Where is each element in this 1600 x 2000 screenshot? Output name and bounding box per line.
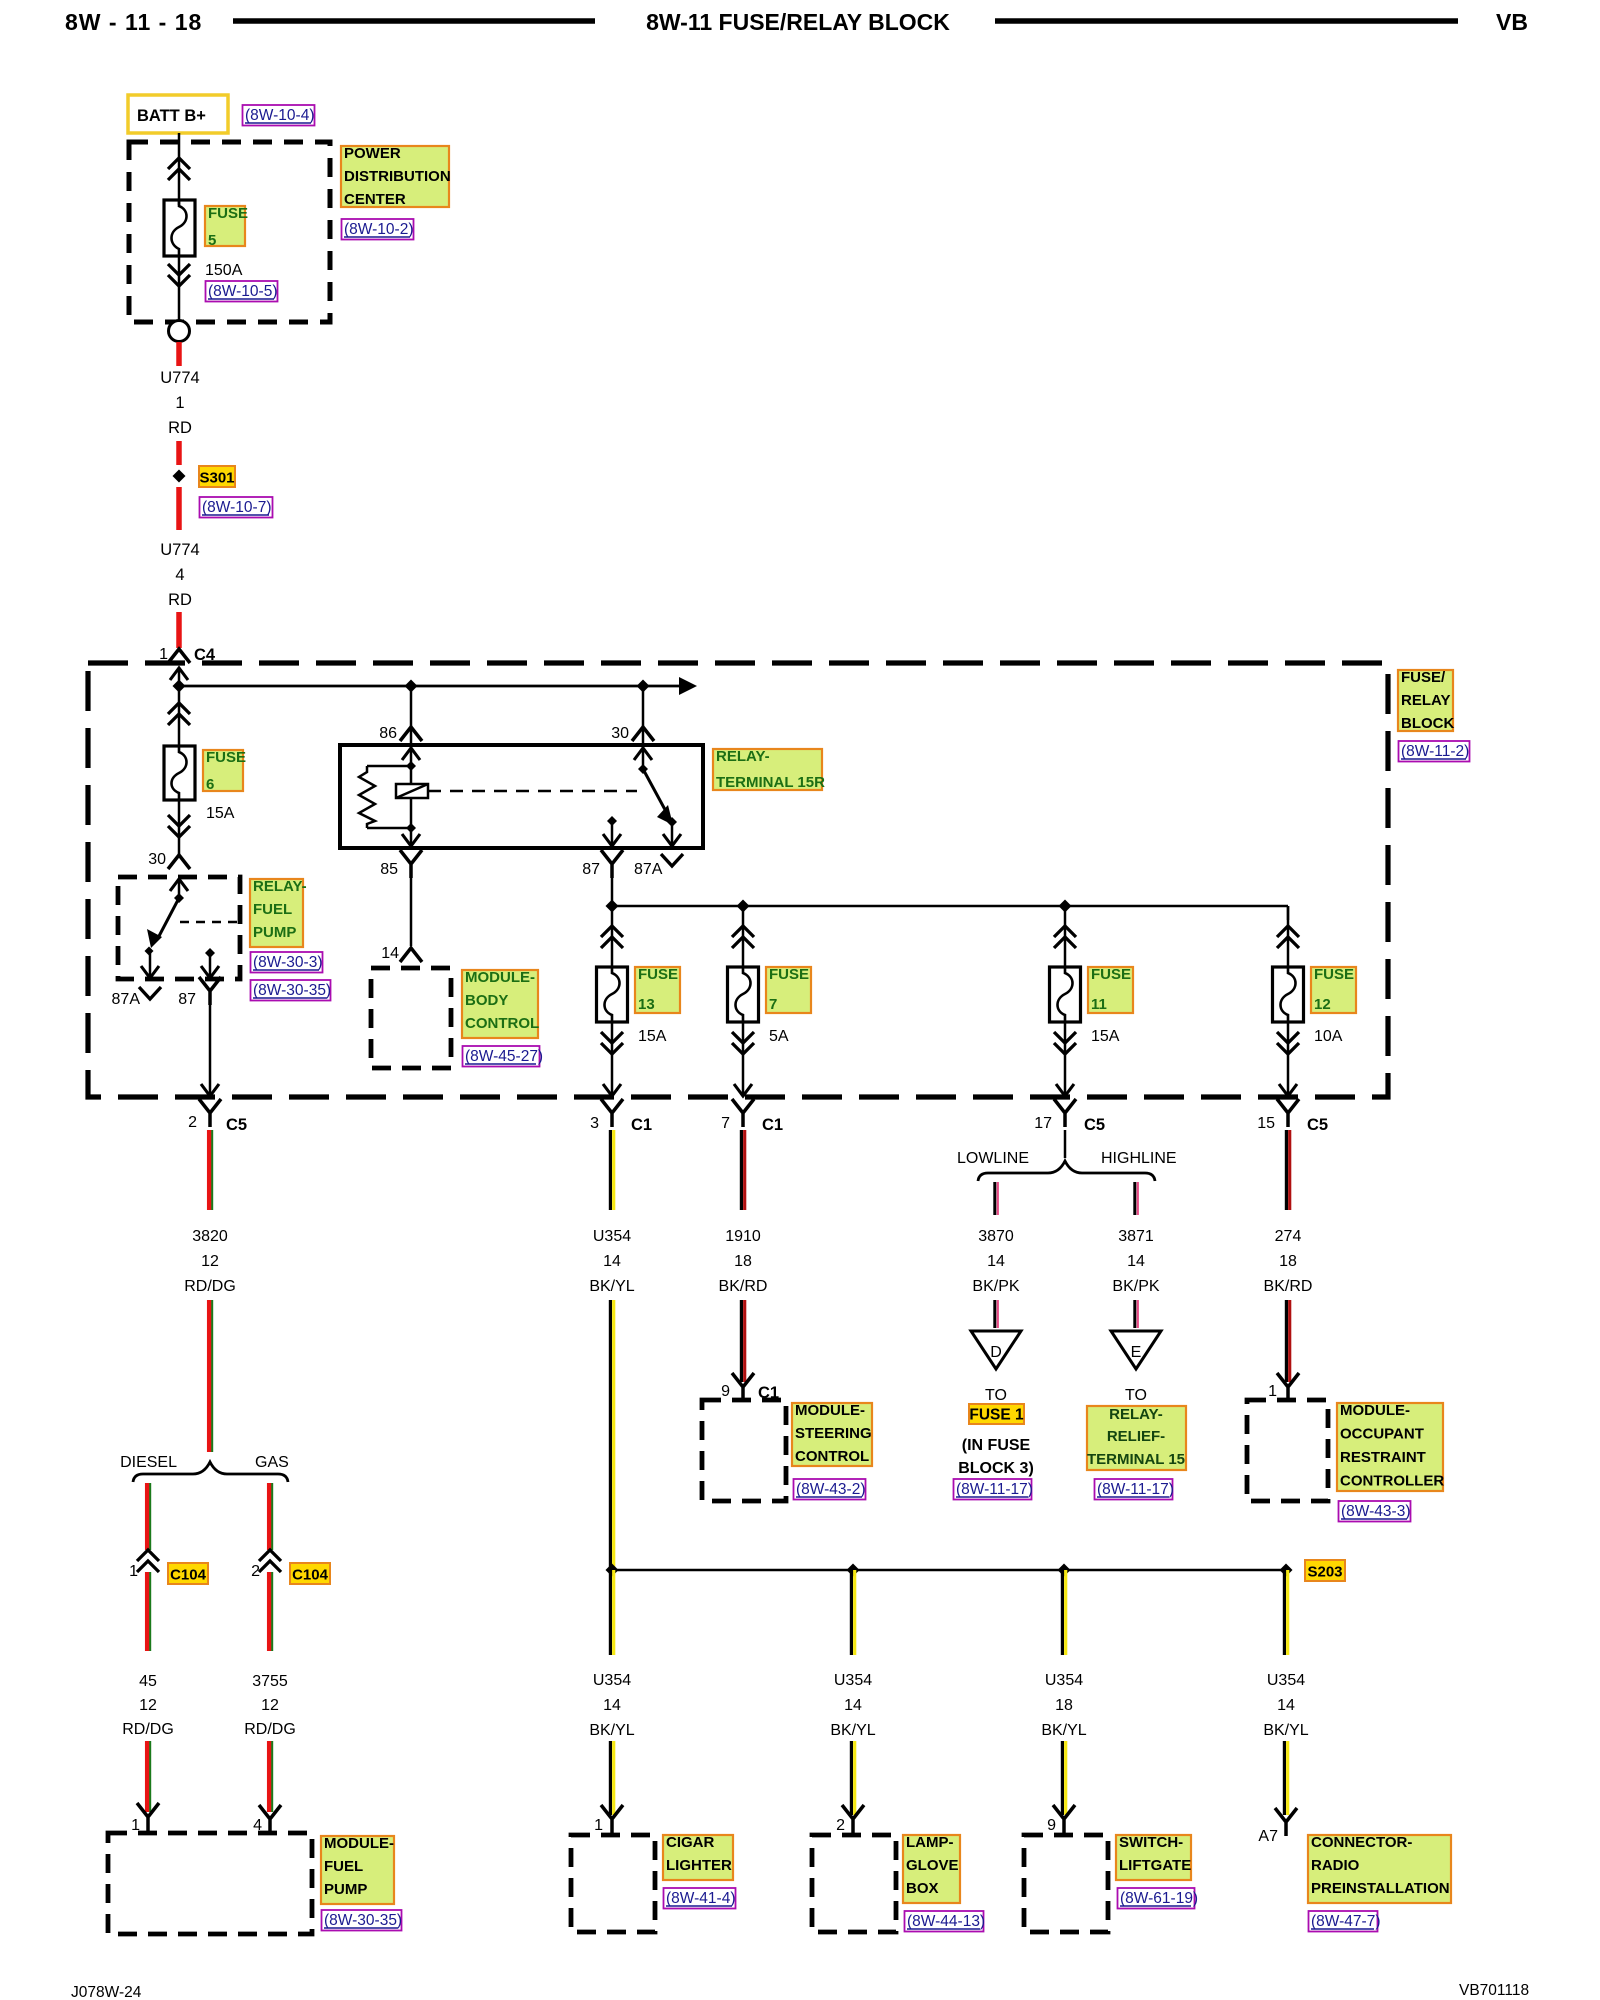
svg-text:U354: U354 xyxy=(593,1672,631,1689)
svg-text:BK/YL: BK/YL xyxy=(589,1722,634,1739)
svg-text:FUSE 1: FUSE 1 xyxy=(969,1407,1024,1424)
svg-text:BK/YL: BK/YL xyxy=(830,1722,875,1739)
svg-text:85: 85 xyxy=(380,861,398,878)
svg-text:GAS: GAS xyxy=(255,1454,289,1471)
svg-text:GLOVE: GLOVE xyxy=(906,1857,959,1874)
svg-text:BK/RD: BK/RD xyxy=(719,1278,768,1295)
svg-text:14: 14 xyxy=(844,1697,862,1714)
svg-text:(8W-30-35): (8W-30-35) xyxy=(324,1912,402,1929)
svg-text:(8W-11-17): (8W-11-17) xyxy=(1097,1481,1174,1498)
svg-text:C104: C104 xyxy=(170,1567,207,1584)
svg-text:86: 86 xyxy=(379,725,397,742)
svg-text:C1: C1 xyxy=(762,1116,783,1134)
svg-text:MODULE-: MODULE- xyxy=(1340,1402,1410,1419)
svg-text:1: 1 xyxy=(129,1563,138,1580)
svg-text:11: 11 xyxy=(1091,996,1107,1013)
svg-text:12: 12 xyxy=(139,1697,157,1714)
svg-text:12: 12 xyxy=(201,1253,219,1270)
svg-text:(8W-44-13): (8W-44-13) xyxy=(907,1913,985,1930)
svg-text:FUSE: FUSE xyxy=(208,205,248,222)
svg-text:(8W-30-3): (8W-30-3) xyxy=(253,954,322,971)
svg-text:2: 2 xyxy=(251,1563,260,1580)
svg-text:BK/YL: BK/YL xyxy=(589,1278,634,1295)
svg-text:3871: 3871 xyxy=(1118,1228,1154,1245)
svg-text:18: 18 xyxy=(1279,1253,1297,1270)
svg-text:15: 15 xyxy=(1257,1115,1275,1132)
svg-text:(8W-41-4): (8W-41-4) xyxy=(666,1890,735,1907)
svg-text:45: 45 xyxy=(139,1673,157,1690)
svg-text:RESTRAINT: RESTRAINT xyxy=(1340,1449,1426,1466)
svg-text:RD: RD xyxy=(168,419,192,437)
svg-text:S203: S203 xyxy=(1307,1564,1342,1581)
svg-text:FUSE: FUSE xyxy=(1091,966,1131,983)
svg-text:RD/DG: RD/DG xyxy=(244,1721,296,1738)
svg-text:VB: VB xyxy=(1496,9,1528,35)
svg-text:7: 7 xyxy=(769,996,777,1013)
svg-text:87: 87 xyxy=(582,861,600,878)
svg-text:POWER: POWER xyxy=(344,145,401,162)
svg-text:3: 3 xyxy=(590,1115,599,1132)
svg-text:30: 30 xyxy=(148,851,166,868)
svg-text:CONTROL: CONTROL xyxy=(465,1015,539,1032)
svg-text:RD: RD xyxy=(168,591,192,609)
svg-text:(8W-11-17): (8W-11-17) xyxy=(956,1481,1033,1498)
svg-text:U774: U774 xyxy=(160,541,199,559)
svg-text:BLOCK 3): BLOCK 3) xyxy=(958,1460,1034,1477)
svg-text:274: 274 xyxy=(1275,1228,1302,1245)
svg-text:RADIO: RADIO xyxy=(1311,1857,1360,1874)
svg-text:PUMP: PUMP xyxy=(253,924,296,941)
svg-text:9: 9 xyxy=(1047,1817,1056,1834)
svg-text:3755: 3755 xyxy=(252,1673,288,1690)
svg-text:RELAY-: RELAY- xyxy=(1109,1406,1163,1423)
svg-text:LOWLINE: LOWLINE xyxy=(957,1150,1029,1167)
svg-text:87A: 87A xyxy=(112,991,141,1008)
svg-text:13: 13 xyxy=(638,996,655,1013)
svg-text:10A: 10A xyxy=(1314,1028,1343,1045)
svg-text:FUEL: FUEL xyxy=(324,1858,363,1875)
svg-text:(8W-45-27): (8W-45-27) xyxy=(465,1048,543,1065)
svg-text:PREINSTALLATION: PREINSTALLATION xyxy=(1311,1880,1450,1897)
svg-text:15A: 15A xyxy=(1091,1028,1120,1045)
svg-text:18: 18 xyxy=(1055,1697,1073,1714)
svg-text:8W - 11 - 18: 8W - 11 - 18 xyxy=(65,9,202,35)
svg-text:14: 14 xyxy=(381,945,399,962)
svg-text:D: D xyxy=(990,1344,1002,1361)
svg-text:FUEL: FUEL xyxy=(253,901,292,918)
svg-text:7: 7 xyxy=(721,1115,730,1132)
svg-text:6: 6 xyxy=(206,776,214,793)
svg-text:OCCUPANT: OCCUPANT xyxy=(1340,1426,1424,1443)
svg-text:BOX: BOX xyxy=(906,1880,939,1897)
svg-text:14: 14 xyxy=(987,1253,1005,1270)
svg-text:FUSE: FUSE xyxy=(769,966,809,983)
svg-text:DISTRIBUTION: DISTRIBUTION xyxy=(344,168,451,185)
svg-text:RELAY-: RELAY- xyxy=(716,748,770,765)
svg-text:1910: 1910 xyxy=(725,1228,761,1245)
svg-text:15A: 15A xyxy=(206,805,235,822)
svg-text:(8W-43-2): (8W-43-2) xyxy=(796,1481,865,1498)
svg-text:CIGAR: CIGAR xyxy=(666,1834,715,1851)
svg-text:14: 14 xyxy=(1277,1697,1295,1714)
svg-text:E: E xyxy=(1131,1344,1142,1361)
svg-text:SWITCH-: SWITCH- xyxy=(1119,1834,1183,1851)
svg-text:S301: S301 xyxy=(199,470,234,487)
svg-text:BK/PK: BK/PK xyxy=(1112,1278,1159,1295)
svg-text:14: 14 xyxy=(603,1697,621,1714)
svg-text:BATT B+: BATT B+ xyxy=(137,107,206,125)
svg-text:1: 1 xyxy=(1268,1383,1277,1400)
svg-text:17: 17 xyxy=(1034,1115,1052,1132)
svg-text:5A: 5A xyxy=(769,1028,789,1045)
svg-text:BK/RD: BK/RD xyxy=(1264,1278,1313,1295)
svg-text:8W-11 FUSE/RELAY BLOCK: 8W-11 FUSE/RELAY BLOCK xyxy=(646,9,950,35)
svg-text:(8W-10-2): (8W-10-2) xyxy=(344,221,413,238)
svg-text:C1: C1 xyxy=(631,1116,652,1134)
svg-text:BLOCK: BLOCK xyxy=(1401,715,1454,732)
svg-text:C5: C5 xyxy=(226,1116,247,1134)
svg-text:CONTROL: CONTROL xyxy=(795,1448,869,1465)
svg-text:2: 2 xyxy=(188,1114,197,1131)
svg-text:FUSE: FUSE xyxy=(1314,966,1354,983)
svg-text:1: 1 xyxy=(594,1817,603,1834)
svg-text:U354: U354 xyxy=(1045,1672,1083,1689)
svg-text:BODY: BODY xyxy=(465,992,508,1009)
svg-text:3820: 3820 xyxy=(192,1228,228,1245)
svg-text:30: 30 xyxy=(611,725,629,742)
svg-text:(8W-47-7): (8W-47-7) xyxy=(1311,1913,1380,1930)
svg-text:12: 12 xyxy=(1314,996,1331,1013)
svg-text:TO: TO xyxy=(985,1387,1007,1404)
svg-text:LAMP-: LAMP- xyxy=(906,1834,954,1851)
svg-text:(IN FUSE: (IN FUSE xyxy=(962,1437,1031,1454)
svg-text:2: 2 xyxy=(836,1817,845,1834)
svg-text:(8W-10-4): (8W-10-4) xyxy=(245,107,314,124)
svg-text:FUSE: FUSE xyxy=(638,966,678,983)
svg-text:TO: TO xyxy=(1125,1387,1147,1404)
svg-text:(8W-43-3): (8W-43-3) xyxy=(1341,1503,1410,1520)
svg-text:BK/PK: BK/PK xyxy=(972,1278,1019,1295)
svg-text:RELAY: RELAY xyxy=(1401,692,1450,709)
svg-text:RELIEF-: RELIEF- xyxy=(1107,1428,1165,1445)
svg-text:FUSE/: FUSE/ xyxy=(1401,669,1446,686)
svg-text:BK/YL: BK/YL xyxy=(1263,1722,1308,1739)
svg-text:87A: 87A xyxy=(634,861,663,878)
svg-text:PUMP: PUMP xyxy=(324,1881,367,1898)
svg-text:TERMINAL 15R: TERMINAL 15R xyxy=(716,774,825,791)
svg-text:MODULE-: MODULE- xyxy=(465,969,535,986)
svg-text:U774: U774 xyxy=(160,369,199,387)
svg-text:LIGHTER: LIGHTER xyxy=(666,1857,732,1874)
svg-text:(8W-11-2): (8W-11-2) xyxy=(1401,743,1469,760)
svg-text:(8W-61-19): (8W-61-19) xyxy=(1120,1890,1198,1907)
svg-text:87: 87 xyxy=(178,991,196,1008)
svg-text:U354: U354 xyxy=(1267,1672,1305,1689)
svg-text:18: 18 xyxy=(734,1253,752,1270)
svg-text:1: 1 xyxy=(175,394,184,412)
svg-text:12: 12 xyxy=(261,1697,279,1714)
svg-text:C104: C104 xyxy=(292,1567,329,1584)
svg-text:CENTER: CENTER xyxy=(344,191,406,208)
svg-text:BK/YL: BK/YL xyxy=(1041,1722,1086,1739)
svg-text:J078W-24: J078W-24 xyxy=(71,1984,142,2000)
svg-text:(8W-30-35): (8W-30-35) xyxy=(253,982,331,999)
svg-text:4: 4 xyxy=(175,566,184,584)
svg-text:9: 9 xyxy=(721,1383,730,1400)
svg-text:3870: 3870 xyxy=(978,1228,1014,1245)
svg-text:HIGHLINE: HIGHLINE xyxy=(1101,1150,1177,1167)
svg-text:150A: 150A xyxy=(205,262,243,279)
svg-text:LIFTGATE: LIFTGATE xyxy=(1119,1857,1191,1874)
svg-text:MODULE-: MODULE- xyxy=(324,1835,394,1852)
svg-text:RD/DG: RD/DG xyxy=(184,1278,236,1295)
svg-text:RD/DG: RD/DG xyxy=(122,1721,174,1738)
svg-text:(8W-10-7): (8W-10-7) xyxy=(202,499,271,516)
svg-text:14: 14 xyxy=(1127,1253,1145,1270)
svg-text:C5: C5 xyxy=(1307,1116,1328,1134)
svg-text:VB701118: VB701118 xyxy=(1459,1982,1529,1999)
svg-text:MODULE-: MODULE- xyxy=(795,1402,865,1419)
svg-text:A7: A7 xyxy=(1258,1828,1278,1845)
svg-text:14: 14 xyxy=(603,1253,621,1270)
svg-text:U354: U354 xyxy=(593,1228,631,1245)
svg-text:STEERING: STEERING xyxy=(795,1425,872,1442)
svg-text:TERMINAL 15: TERMINAL 15 xyxy=(1087,1451,1185,1468)
svg-text:CONNECTOR-: CONNECTOR- xyxy=(1311,1834,1412,1851)
svg-text:CONTROLLER: CONTROLLER xyxy=(1340,1473,1444,1490)
svg-text:15A: 15A xyxy=(638,1028,667,1045)
svg-text:5: 5 xyxy=(208,232,216,249)
svg-text:DIESEL: DIESEL xyxy=(120,1454,177,1471)
svg-text:(8W-10-5): (8W-10-5) xyxy=(208,283,277,300)
svg-text:RELAY-: RELAY- xyxy=(253,878,307,895)
svg-text:C5: C5 xyxy=(1084,1116,1105,1134)
svg-text:U354: U354 xyxy=(834,1672,872,1689)
svg-text:FUSE: FUSE xyxy=(206,749,246,766)
